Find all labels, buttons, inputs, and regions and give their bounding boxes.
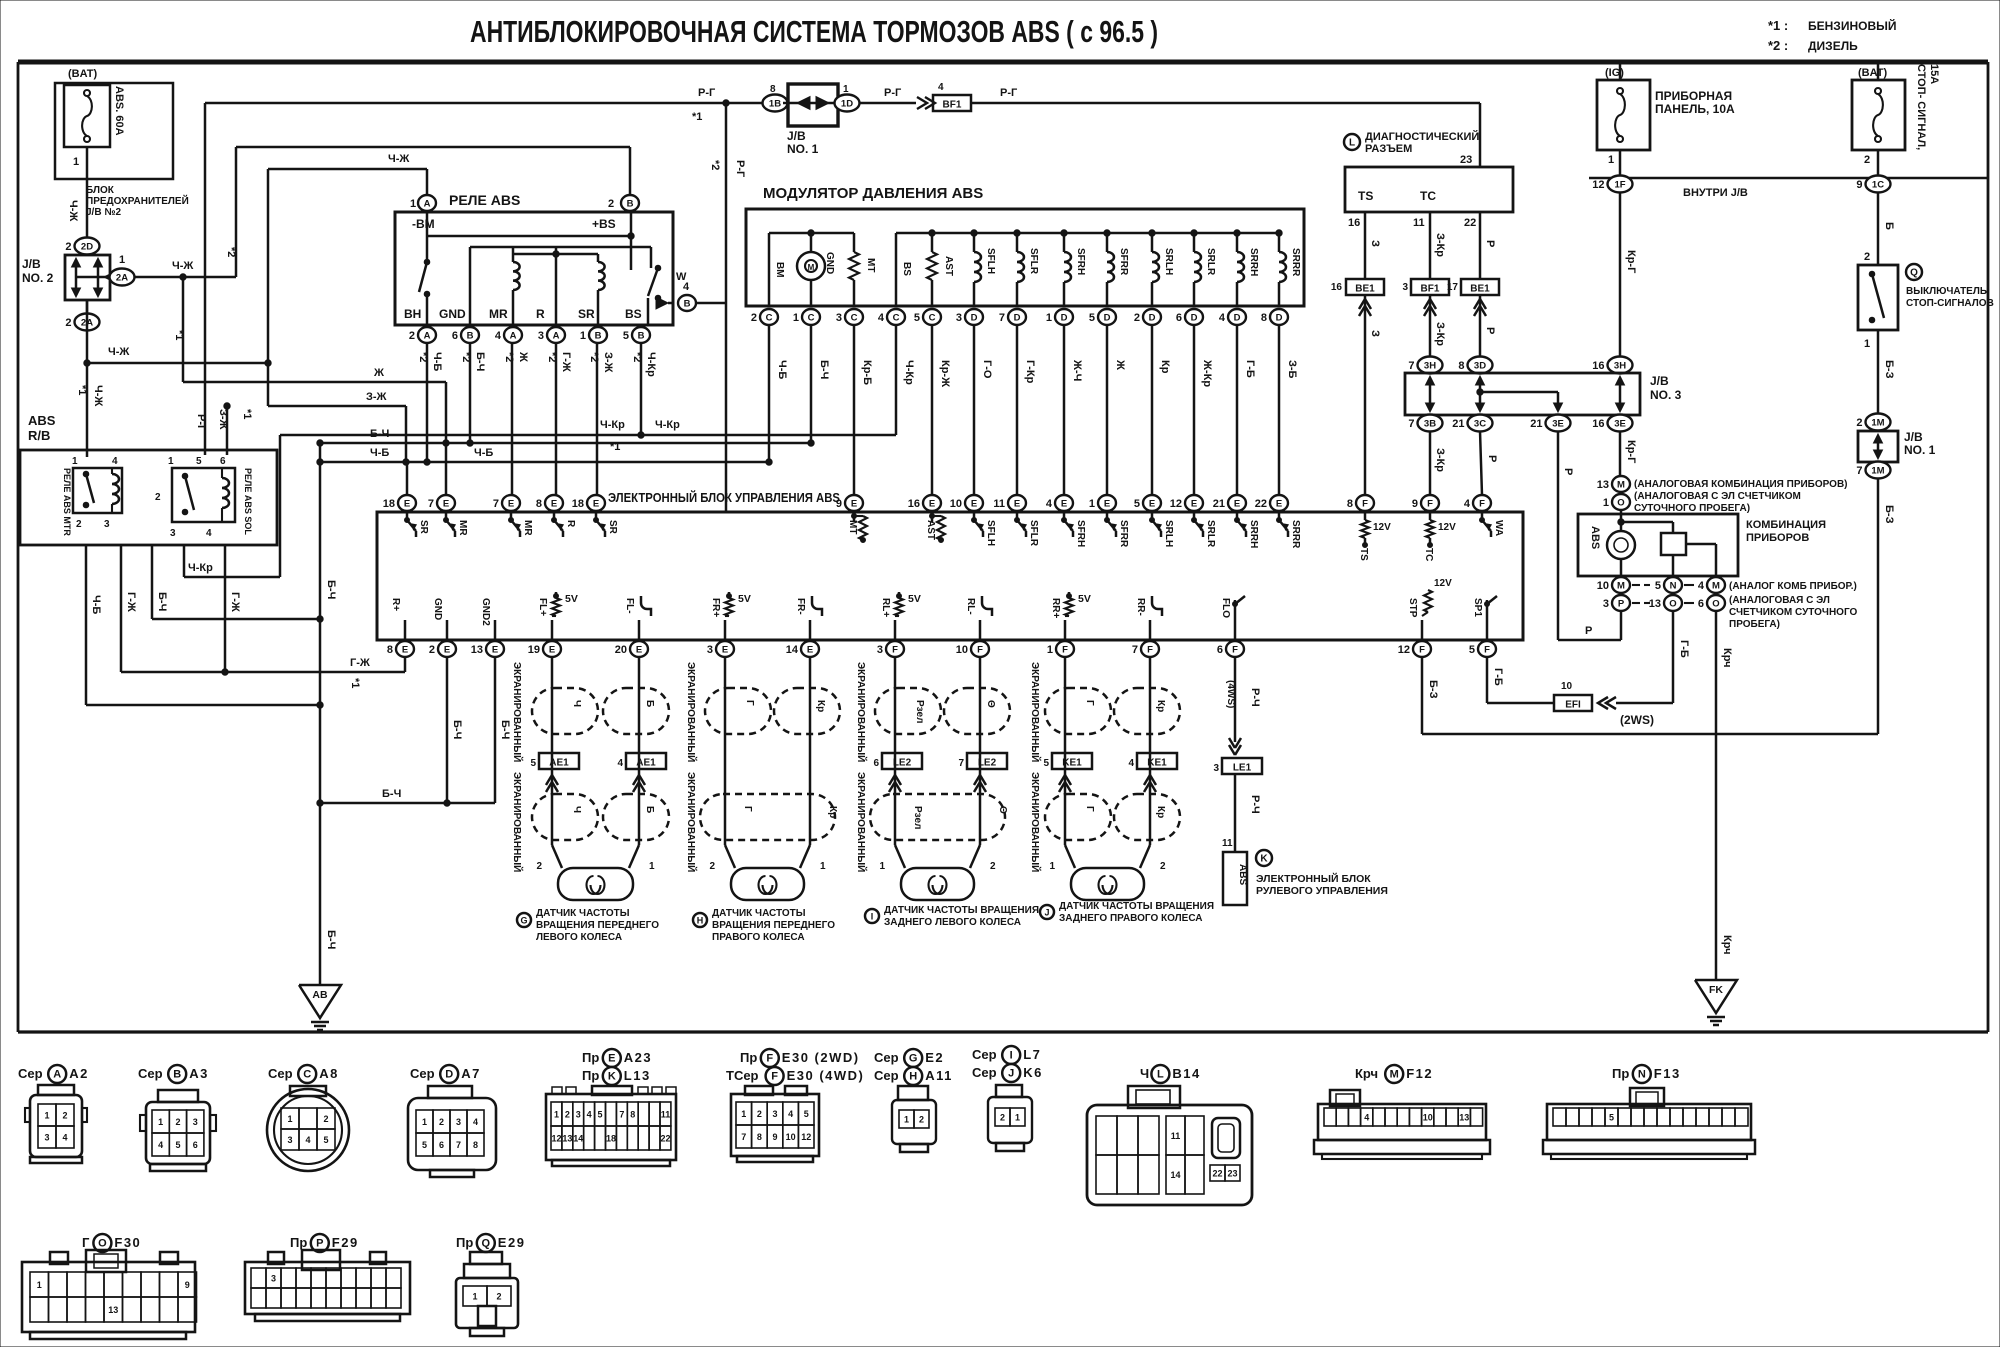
- svg-text:E: E: [402, 644, 408, 655]
- svg-text:Б-Ч: Б-Ч: [474, 352, 486, 371]
- svg-text:F: F: [1062, 644, 1068, 655]
- svg-text:5: 5: [623, 330, 629, 342]
- svg-text:1M: 1M: [1871, 465, 1884, 476]
- svg-text:*2: *2: [709, 160, 721, 170]
- svg-text:Q: Q: [1910, 268, 1918, 279]
- svg-text:R: R: [536, 307, 545, 321]
- svg-text:18: 18: [383, 498, 395, 510]
- svg-text:Пр: Пр: [740, 1050, 757, 1065]
- svg-text:E: E: [1104, 498, 1110, 509]
- svg-text:(АНАЛОГОВАЯ КОМБИНАЦИЯ ПРИБОРО: (АНАЛОГОВАЯ КОМБИНАЦИЯ ПРИБОРОВ): [1634, 479, 1848, 490]
- svg-text:E: E: [443, 498, 449, 509]
- svg-text:SRLH: SRLH: [1163, 248, 1174, 275]
- svg-text:ТСер: ТСер: [726, 1068, 759, 1083]
- svg-text:6: 6: [220, 456, 226, 467]
- svg-text:1: 1: [1049, 861, 1055, 872]
- wire relay 2A to bus: [426, 343, 429, 462]
- svg-text:1: 1: [158, 1117, 163, 1127]
- svg-text:11: 11: [1171, 1131, 1181, 1141]
- svg-text:6: 6: [193, 1140, 198, 1150]
- svg-text:M: M: [1617, 580, 1625, 591]
- svg-text:5: 5: [175, 1140, 180, 1150]
- svg-text:TS: TS: [1358, 548, 1369, 561]
- wire relay 3A to ECU R: [555, 343, 558, 495]
- ECU pin 6(F) FLO: [1226, 641, 1244, 657]
- svg-text:Рзел: Рзел: [912, 806, 923, 829]
- svg-text:Б-З: Б-З: [1883, 505, 1895, 524]
- svg-text:22: 22: [1464, 217, 1476, 229]
- svg-text:3: 3: [956, 312, 962, 324]
- svg-text:2: 2: [496, 1292, 501, 1302]
- svg-text:(IG): (IG): [1605, 67, 1624, 79]
- wire Б-З to J/B No.1: [1877, 330, 1880, 414]
- wire 3E to cluster: [1619, 431, 1622, 475]
- svg-text:Р: Р: [1585, 625, 1592, 637]
- svg-text:МОДУЛЯТОР ДАВЛЕНИЯ ABS: МОДУЛЯТОР ДАВЛЕНИЯ ABS: [763, 185, 983, 202]
- svg-text:TC: TC: [1420, 189, 1436, 203]
- svg-text:Ч-Кр: Ч-Кр: [188, 562, 213, 574]
- svg-text:Б-Ч: Б-Ч: [451, 720, 463, 739]
- svg-text:3E: 3E: [1552, 418, 1564, 429]
- svg-text:RR-: RR-: [1135, 598, 1146, 616]
- svg-text:*2 :: *2 :: [1768, 38, 1788, 53]
- svg-text:ЭКРАНИРОВАННЫЙ: ЭКРАНИРОВАННЫЙ: [685, 662, 698, 762]
- svg-text:BE1: BE1: [1355, 284, 1375, 295]
- wire TC: [1429, 212, 1432, 278]
- wire Б-Ч GND link: [320, 802, 495, 805]
- svg-text:5: 5: [804, 1109, 809, 1119]
- svg-text:СУТОЧНОГО ПРОБЕГА): СУТОЧНОГО ПРОБЕГА): [1634, 503, 1750, 514]
- svg-text:C: C: [929, 312, 936, 323]
- svg-text:Ч-Ж: Ч-Ж: [67, 200, 79, 221]
- svg-text:7: 7: [1132, 644, 1138, 656]
- svg-text:Ч-Ж: Ч-Ж: [108, 346, 129, 358]
- svg-text:4: 4: [617, 758, 623, 769]
- svg-text:Р-Г: Р-Г: [195, 414, 207, 432]
- svg-text:SFLH: SFLH: [985, 520, 996, 546]
- svg-text:K6: K6: [1023, 1065, 1043, 1080]
- wire Ч-Ж down to ABS R/B: [86, 363, 89, 457]
- svg-text:1: 1: [1608, 154, 1614, 166]
- svg-text:4: 4: [158, 1140, 163, 1150]
- svg-text:Ч-Кр: Ч-Кр: [903, 360, 915, 385]
- svg-text:ЭКРАНИРОВАННЫЙ: ЭКРАНИРОВАННЫЙ: [511, 662, 524, 762]
- svg-text:Θ: Θ: [997, 806, 1008, 814]
- svg-text:2: 2: [919, 1115, 924, 1125]
- svg-text:SP1: SP1: [1472, 598, 1483, 617]
- svg-text:G: G: [520, 916, 527, 926]
- svg-text:9: 9: [1412, 498, 1418, 510]
- svg-text:1: 1: [1015, 1113, 1020, 1123]
- svg-text:1B: 1B: [769, 98, 781, 109]
- svg-text:Ч-Б: Ч-Б: [776, 360, 788, 379]
- svg-text:ABS: ABS: [1237, 864, 1248, 885]
- svg-text:O: O: [1712, 598, 1719, 609]
- wire Р-Г to BF1: [859, 102, 916, 105]
- svg-text:12V: 12V: [1373, 522, 1391, 533]
- svg-text:ПРОБЕГА): ПРОБЕГА): [1729, 619, 1780, 630]
- svg-text:ЭКРАНИРОВАННЫЙ: ЭКРАНИРОВАННЫЙ: [855, 772, 868, 872]
- svg-text:E30 (2WD): E30 (2WD): [782, 1050, 860, 1065]
- svg-text:Ж-Кр: Ж-Кр: [1201, 359, 1213, 387]
- shielded cable row2: [700, 794, 835, 840]
- svg-text:G: G: [909, 1053, 918, 1065]
- svg-text:5: 5: [422, 1140, 427, 1150]
- ECU pin 1(F) RR+: [1056, 641, 1074, 657]
- svg-text:1: 1: [580, 330, 586, 342]
- ECU pin 7(E) MR: [437, 495, 455, 511]
- svg-text:14: 14: [573, 1134, 583, 1144]
- svg-text:(АНАЛОГ КОМБ ПРИБОР.): (АНАЛОГ КОМБ ПРИБОР.): [1729, 581, 1857, 592]
- cluster box КОМБИНАЦИЯ ПРИБОРОВ: [1578, 514, 1738, 576]
- svg-text:F13: F13: [1654, 1066, 1681, 1081]
- ECU pin 12(F) STP: [1413, 641, 1431, 657]
- svg-text:2: 2: [62, 1111, 67, 1121]
- svg-text:ДАТЧИК ЧАСТОТЫ ВРАЩЕНИЯ: ДАТЧИК ЧАСТОТЫ ВРАЩЕНИЯ: [1059, 901, 1214, 912]
- svg-text:5: 5: [1469, 644, 1475, 656]
- svg-text:Г-Б: Г-Б: [1678, 640, 1690, 658]
- ECU pin 9(E) MT: [845, 495, 863, 511]
- svg-text:J/B: J/B: [1904, 430, 1923, 444]
- svg-text:8: 8: [1458, 360, 1464, 372]
- svg-text:18: 18: [606, 1134, 616, 1144]
- svg-text:D: D: [1061, 312, 1068, 323]
- svg-text:4: 4: [112, 456, 118, 467]
- svg-text:РУЛЕВОГО УПРАВЛЕНИЯ: РУЛЕВОГО УПРАВЛЕНИЯ: [1256, 885, 1388, 897]
- wire sensor right: [809, 657, 812, 845]
- svg-text:4: 4: [1698, 580, 1705, 592]
- svg-text:ВРАЩЕНИЯ ПЕРЕДНЕГО: ВРАЩЕНИЯ ПЕРЕДНЕГО: [536, 920, 659, 931]
- svg-text:F: F: [1147, 644, 1153, 655]
- wire EFI link: [1487, 702, 1554, 705]
- svg-text:ДАТЧИК ЧАСТОТЫ ВРАЩЕНИЯ: ДАТЧИК ЧАСТОТЫ ВРАЩЕНИЯ: [884, 905, 1039, 916]
- svg-text:20: 20: [615, 644, 627, 656]
- svg-text:10: 10: [786, 1132, 796, 1142]
- svg-text:Θ: Θ: [985, 700, 996, 708]
- svg-text:BF1: BF1: [943, 100, 962, 111]
- svg-text:ЭЛЕКТРОННЫЙ БЛОК УПРАВЛЕНИЯ AB: ЭЛЕКТРОННЫЙ БЛОК УПРАВЛЕНИЯ ABS: [608, 490, 840, 505]
- svg-text:6: 6: [1217, 644, 1223, 656]
- svg-text:Р-Ч: Р-Ч: [1249, 795, 1261, 814]
- svg-text:5: 5: [1134, 498, 1140, 510]
- svg-text:SFRH: SFRH: [1075, 248, 1086, 275]
- svg-text:C: C: [851, 312, 858, 323]
- wire Р-Г to ABS R/B: [204, 410, 207, 455]
- svg-text:E: E: [1014, 498, 1020, 509]
- svg-text:1: 1: [168, 456, 174, 467]
- svg-text:З-Кр: З-Кр: [1434, 233, 1446, 257]
- svg-text:13: 13: [1459, 1113, 1469, 1123]
- svg-text:Пр: Пр: [1612, 1066, 1629, 1081]
- svg-text:E2: E2: [925, 1050, 944, 1065]
- svg-text:C: C: [766, 312, 773, 323]
- svg-text:LE2: LE2: [893, 758, 912, 769]
- junction block J/B No.2: [65, 255, 110, 300]
- svg-text:9: 9: [185, 1280, 190, 1290]
- svg-text:ЭКРАНИРОВАННЫЙ: ЭКРАНИРОВАННЫЙ: [685, 772, 698, 872]
- cluster input pins 13(M) 1(O): [1612, 476, 1630, 492]
- svg-text:3: 3: [193, 1117, 198, 1127]
- svg-text:Г: Г: [82, 1235, 90, 1250]
- svg-text:Р-Г: Р-Г: [698, 87, 716, 99]
- svg-text:11: 11: [661, 1110, 671, 1120]
- svg-text:12: 12: [801, 1132, 811, 1142]
- svg-text:J: J: [1008, 1068, 1014, 1080]
- shield connector 3 LE1: [1229, 738, 1241, 755]
- svg-text:6: 6: [439, 1140, 444, 1150]
- svg-text:14: 14: [786, 644, 799, 656]
- svg-text:Ч-Б: Ч-Б: [370, 447, 389, 459]
- svg-text:J: J: [1044, 908, 1049, 918]
- svg-text:D: D: [1234, 312, 1241, 323]
- svg-text:J/B №2: J/B №2: [86, 207, 121, 218]
- relay coil SR: [597, 254, 600, 262]
- wire sensor left: [894, 657, 897, 845]
- svg-text:3: 3: [104, 519, 110, 530]
- svg-text:Ч-Ж: Ч-Ж: [388, 153, 409, 165]
- shielded cable ovals row1: [705, 688, 771, 734]
- wire TS: [1364, 212, 1367, 278]
- svg-text:6: 6: [1698, 598, 1704, 610]
- connector pin 2(1M): [1866, 414, 1891, 431]
- ECU pin 8(F) TS: [1356, 495, 1374, 511]
- svg-text:5: 5: [530, 758, 536, 769]
- ECU pin 10(E) SFLH: [965, 495, 983, 511]
- svg-text:AST: AST: [925, 520, 936, 540]
- connector pin 12(1F): [1608, 176, 1633, 193]
- svg-text:R/B: R/B: [28, 428, 50, 443]
- svg-text:A: A: [424, 330, 431, 341]
- svg-text:2: 2: [1000, 1113, 1005, 1123]
- connector pin 2(2D): [75, 238, 100, 255]
- ECU pin 7(E) MR: [502, 495, 520, 511]
- modulator output wires: [768, 325, 771, 462]
- svg-text:P: P: [1618, 598, 1625, 609]
- svg-text:Ч-Ж: Ч-Ж: [172, 260, 193, 272]
- svg-text:E: E: [851, 498, 857, 509]
- svg-text:2: 2: [757, 1109, 762, 1119]
- svg-text:Г-Б: Г-Б: [1244, 360, 1256, 378]
- svg-text:Сер: Сер: [874, 1050, 899, 1065]
- svg-text:1: 1: [73, 156, 79, 168]
- svg-text:1: 1: [879, 861, 885, 872]
- svg-text:L: L: [1349, 138, 1355, 149]
- wire sensor right: [638, 657, 641, 845]
- svg-text:Ж-Ч: Ж-Ч: [1071, 359, 1083, 381]
- svg-text:8: 8: [536, 498, 542, 510]
- wire bus Ч-Кр: [280, 434, 896, 437]
- svg-text:17: 17: [1447, 282, 1459, 293]
- svg-text:2: 2: [155, 492, 161, 503]
- svg-text:Г-Ж: Г-Ж: [350, 657, 370, 669]
- FLO wire to steering ECU: [1234, 657, 1237, 742]
- svg-text:2: 2: [565, 1110, 570, 1120]
- svg-text:2: 2: [709, 861, 715, 872]
- frame border: [18, 60, 1988, 65]
- connector pin 7(1M): [1866, 462, 1891, 479]
- svg-text:SR: SR: [578, 307, 595, 321]
- svg-text:B: B: [684, 298, 691, 309]
- svg-text:A8: A8: [319, 1066, 339, 1081]
- svg-text:1: 1: [1047, 644, 1053, 656]
- ECU pin 11(E) SFLR: [1008, 495, 1026, 511]
- svg-text:СЧЕТЧИКОМ СУТОЧНОГО: СЧЕТЧИКОМ СУТОЧНОГО: [1729, 607, 1857, 618]
- svg-text:B: B: [173, 1069, 181, 1081]
- svg-text:M: M: [808, 263, 815, 272]
- svg-text:11: 11: [993, 498, 1005, 510]
- svg-text:З-Б: З-Б: [1286, 360, 1298, 379]
- wire Кр-Г down: [1619, 192, 1622, 357]
- svg-text:C: C: [893, 312, 900, 323]
- svg-text:B: B: [467, 330, 474, 341]
- svg-text:4: 4: [1364, 1113, 1369, 1123]
- svg-text:3: 3: [538, 330, 544, 342]
- svg-text:1C: 1C: [1872, 179, 1884, 190]
- wire Крч from cluster O to ground FK: [1715, 611, 1718, 980]
- svg-text:(BAT): (BAT): [68, 68, 97, 80]
- svg-text:AE1: AE1: [549, 758, 569, 769]
- wire 3B to ECU TC: [1429, 431, 1432, 495]
- svg-text:FL-: FL-: [624, 598, 635, 614]
- svg-text:+BS: +BS: [592, 217, 616, 231]
- svg-text:1F: 1F: [1614, 179, 1625, 190]
- fuse block outer box J/B No.2: [55, 83, 173, 179]
- svg-text:D: D: [1276, 312, 1283, 323]
- svg-text:1: 1: [649, 861, 655, 872]
- svg-text:2: 2: [175, 1117, 180, 1127]
- svg-text:1: 1: [287, 1114, 292, 1124]
- svg-text:(2WS): (2WS): [1620, 713, 1654, 727]
- svg-text:E: E: [807, 644, 813, 655]
- svg-text:2: 2: [990, 861, 996, 872]
- svg-text:MR: MR: [489, 307, 508, 321]
- wire relay 6B to bus: [469, 343, 472, 443]
- shielded cable ovals row1: [532, 688, 598, 734]
- svg-text:Б: Б: [1883, 222, 1895, 230]
- svg-text:Б-З: Б-З: [1883, 360, 1895, 379]
- shielded cable ovals row1: [1045, 688, 1111, 734]
- svg-text:2: 2: [1856, 417, 1862, 429]
- svg-text:B: B: [627, 198, 634, 209]
- ECU pin 5(E) SRLH: [1143, 495, 1161, 511]
- wire relay 4A to ECU: [511, 343, 514, 495]
- svg-text:5: 5: [1609, 1113, 1614, 1123]
- ECU pin 3(F) RL+: [886, 641, 904, 657]
- svg-text:ЛЕВОГО КОЛЕСА: ЛЕВОГО КОЛЕСА: [536, 932, 622, 943]
- svg-text:З-Кр: З-Кр: [1434, 448, 1446, 472]
- svg-text:BH: BH: [404, 307, 421, 321]
- svg-text:E: E: [404, 498, 410, 509]
- svg-text:RR+: RR+: [1050, 598, 1061, 618]
- svg-text:8: 8: [1347, 498, 1353, 510]
- svg-text:ВНУТРИ J/B: ВНУТРИ J/B: [1683, 187, 1748, 199]
- svg-text:4: 4: [1128, 758, 1134, 769]
- svg-text:Кр: Кр: [1155, 700, 1166, 712]
- wire sensor left: [551, 657, 554, 845]
- svg-text:ПРЕДОХРАНИТЕЛЕЙ: ПРЕДОХРАНИТЕЛЕЙ: [86, 194, 189, 207]
- svg-text:K: K: [608, 1071, 616, 1083]
- svg-text:Ж: Ж: [373, 367, 384, 379]
- ECU pin 14(E) FR-: [801, 641, 819, 657]
- svg-text:ДИАГНОСТИЧЕСКИЙ: ДИАГНОСТИЧЕСКИЙ: [1365, 130, 1479, 143]
- modulator AST resistor: [931, 233, 934, 252]
- svg-text:(АНАЛОГОВАЯ С ЭЛ: (АНАЛОГОВАЯ С ЭЛ: [1729, 595, 1830, 606]
- svg-text:5: 5: [1089, 312, 1095, 324]
- svg-text:Ч-Кр: Ч-Кр: [655, 419, 680, 431]
- svg-text:*1: *1: [241, 409, 253, 419]
- svg-text:7: 7: [619, 1110, 624, 1120]
- svg-text:21: 21: [1452, 418, 1464, 430]
- svg-text:Р-Г: Р-Г: [884, 87, 902, 99]
- wire Ч-Б lower jog: [86, 704, 320, 707]
- svg-text:ABS: ABS: [1589, 526, 1601, 549]
- shielded cable ovals row1: [875, 688, 941, 734]
- junction block J/B No.1 right: [1858, 431, 1898, 462]
- ECU pin 20(E) FL-: [630, 641, 648, 657]
- svg-text:B14: B14: [1172, 1066, 1200, 1081]
- svg-text:1: 1: [1089, 498, 1095, 510]
- svg-text:SRLH: SRLH: [1163, 520, 1174, 547]
- svg-text:21: 21: [1530, 418, 1542, 430]
- svg-text:MT: MT: [865, 258, 876, 272]
- wire from fuse to J/B No.2: [86, 147, 89, 237]
- svg-text:TS: TS: [1358, 189, 1373, 203]
- svg-text:A23: A23: [624, 1050, 652, 1065]
- svg-text:7: 7: [493, 498, 499, 510]
- svg-text:FK: FK: [1709, 984, 1723, 996]
- svg-text:Кр: Кр: [827, 806, 838, 818]
- svg-text:6: 6: [1176, 312, 1182, 324]
- svg-text:3: 3: [44, 1133, 49, 1143]
- line internal J/B: [1589, 177, 1987, 180]
- ECU pin 21(E) SRRH: [1228, 495, 1246, 511]
- svg-text:З-Ж: З-Ж: [217, 409, 229, 430]
- svg-text:E: E: [929, 498, 935, 509]
- svg-text:A3: A3: [189, 1066, 209, 1081]
- svg-text:J/B: J/B: [787, 129, 806, 143]
- svg-text:AB: AB: [312, 989, 328, 1001]
- svg-text:Сер: Сер: [874, 1068, 899, 1083]
- wire sensor left: [1064, 657, 1067, 845]
- cluster resistor block: [1621, 521, 1673, 524]
- svg-text:13: 13: [108, 1305, 118, 1315]
- svg-text:ЭКРАНИРОВАННЫЙ: ЭКРАНИРОВАННЫЙ: [855, 662, 868, 762]
- svg-text:Б-Ч: Б-Ч: [325, 930, 337, 949]
- ECU pin 13(E) GND2: [486, 641, 504, 657]
- svg-text:J/B: J/B: [22, 257, 41, 271]
- svg-text:ДАТЧИК ЧАСТОТЫ: ДАТЧИК ЧАСТОТЫ: [536, 908, 630, 919]
- svg-text:*1 :: *1 :: [1768, 18, 1788, 33]
- svg-text:NO. 1: NO. 1: [1904, 443, 1936, 457]
- svg-text:Сер: Сер: [138, 1066, 163, 1081]
- ECU pin 5(F) SP1: [1478, 641, 1496, 657]
- svg-text:AE1: AE1: [636, 758, 656, 769]
- svg-text:MR: MR: [457, 520, 468, 536]
- svg-text:Б-Ч: Б-Ч: [156, 592, 168, 611]
- svg-text:NO. 3: NO. 3: [1650, 388, 1682, 402]
- ECU pin 22(E) SRRR: [1270, 495, 1288, 511]
- sensor caption H: [693, 913, 707, 927]
- relay switch BS with diode W: [650, 247, 653, 268]
- svg-text:I: I: [1010, 1050, 1013, 1062]
- svg-text:3D: 3D: [1474, 360, 1486, 371]
- modulator bottom pins: [760, 309, 778, 325]
- svg-text:E: E: [1191, 498, 1197, 509]
- svg-text:FLO: FLO: [1220, 598, 1231, 618]
- svg-text:E: E: [492, 644, 498, 655]
- ECU pin 2(E) GND: [438, 641, 456, 657]
- svg-text:12: 12: [551, 1134, 561, 1144]
